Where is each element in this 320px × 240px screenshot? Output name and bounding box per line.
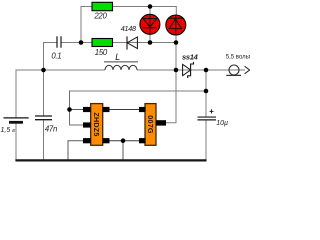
node junction rail ss14 anode bbox=[174, 68, 179, 73]
output connector underline bbox=[226, 74, 241, 76]
LED D3 triangle up bbox=[169, 19, 182, 29]
wire row2 resistor 150 to diode 4148 and LED bottom node bbox=[113, 42, 151, 44]
diode D1 4148 cathode bar bbox=[126, 36, 128, 49]
wire top row resistor 220 to LED2 corner bbox=[113, 7, 177, 16]
LED D3 lead through bbox=[175, 15, 177, 35]
wire LED1 anode stub bbox=[149, 7, 151, 15]
inductor L core line bbox=[104, 61, 138, 63]
wire battery positive lead bbox=[15, 70, 17, 117]
LED D3 body circle bbox=[166, 15, 186, 35]
LED D3 cathode bar top bbox=[169, 17, 183, 19]
inductor L winding humps bbox=[105, 65, 137, 70]
wire main top rail left (battery to coil) bbox=[16, 69, 106, 71]
IC U1 body bbox=[91, 104, 103, 146]
wire output cap lower lead bbox=[205, 120, 207, 160]
IC U2 pin left bottom bbox=[139, 138, 146, 143]
wire IC1 to IC2 bottom interconnect bbox=[110, 140, 140, 142]
svg-text:5,5 вольт: 5,5 вольт bbox=[226, 55, 250, 61]
node junction LED1 top bbox=[148, 4, 153, 9]
capacitor C3 polarity plus bbox=[210, 109, 214, 113]
output arrow head bbox=[245, 66, 250, 74]
IC U1 pin 1 left top bbox=[83, 107, 91, 112]
IC U2 body bbox=[145, 104, 156, 146]
svg-text:150: 150 bbox=[95, 48, 108, 57]
wire ground bottom rail bbox=[15, 159, 206, 161]
wire row2 left segment to cap 0.1 bbox=[43, 42, 57, 44]
output connector circle bbox=[229, 65, 239, 75]
wire feedback bus y91 bbox=[70, 90, 207, 92]
diode D1 4148 triangle bbox=[127, 37, 137, 49]
svg-text:007G: 007G bbox=[146, 115, 155, 134]
IC U1 pin 4 right bottom bbox=[103, 138, 110, 143]
node junction LED2 bottom bbox=[174, 40, 179, 45]
capacitor C3 10u plates bbox=[198, 116, 217, 118]
svg-text:L: L bbox=[115, 52, 120, 62]
svg-text:ZHDZ5: ZHDZ5 bbox=[92, 112, 101, 136]
svg-text:10µ: 10µ bbox=[216, 120, 228, 127]
battery B1 1.5V long plate bbox=[4, 117, 29, 119]
svg-text:47n: 47n bbox=[45, 125, 57, 134]
wire mid ground drop bbox=[122, 141, 124, 160]
IC U1 pin 3 left bottom bbox=[83, 138, 91, 143]
node junction LED1 bottom bbox=[148, 40, 153, 45]
wire top row left of resistor 220 bbox=[81, 6, 93, 8]
LED D2 body circle bbox=[140, 14, 160, 34]
node junction 0.1 to 150 and 220 riser bbox=[79, 40, 84, 45]
diode D4 ss14 triangle bbox=[183, 64, 191, 75]
wire LED bus down through rail to IC2 right pin bbox=[166, 43, 176, 123]
wire IC1 pin1 link bbox=[70, 109, 84, 111]
node junction rail output cap bbox=[204, 68, 209, 73]
wire main rail right (coil to output arrow) bbox=[137, 69, 245, 71]
wire vertical between 220 row and 150 row bbox=[80, 6, 82, 43]
node junction bottom interconnect ground bbox=[121, 138, 126, 143]
wire row2 cap 0.1 to resistor 150 bbox=[62, 42, 93, 44]
wire output cap upper lead bbox=[205, 70, 207, 117]
svg-text:ss14: ss14 bbox=[182, 52, 199, 61]
svg-text:4148: 4148 bbox=[121, 24, 137, 33]
wire IC1 left rail bbox=[70, 91, 84, 126]
node junction IC1 left rail bbox=[67, 107, 72, 112]
wire LED bottom bus bbox=[150, 42, 176, 44]
wire IC1 pin3 to ground bbox=[68, 141, 83, 160]
resistor R2 150 body bbox=[92, 39, 113, 47]
wire 47n lower lead bbox=[43, 120, 45, 160]
wire node A riser (0.1 cap branch vertical) bbox=[43, 43, 45, 116]
LED D2 triangle down bbox=[143, 19, 157, 27]
diode D4 ss14 schottky cathode bbox=[188, 62, 194, 78]
wire LED2 bottom stub bbox=[175, 35, 177, 43]
wire battery negative lead bbox=[15, 123, 17, 160]
IC U2 pin right middle bbox=[156, 120, 166, 125]
LED D2 cathode bar bbox=[143, 27, 156, 29]
IC U1 pin 5 right top bbox=[103, 107, 110, 112]
resistor R1 220 body bbox=[92, 2, 113, 10]
capacitor C1 0.1 plates bbox=[57, 36, 61, 48]
node junction feedback bus cap bbox=[204, 89, 209, 94]
svg-text:220: 220 bbox=[93, 11, 107, 20]
capacitor C2 47n plates bbox=[35, 115, 52, 117]
wire IC1 to IC2 top interconnect bbox=[110, 109, 140, 111]
node junction battery-cap branch bbox=[41, 68, 46, 73]
svg-text:0.1: 0.1 bbox=[51, 51, 61, 60]
battery B1 short thick plate bbox=[9, 121, 23, 124]
wire LED1 cathode stub bbox=[149, 34, 151, 42]
IC U2 pin left top bbox=[139, 107, 146, 112]
LED D2 lead through bbox=[149, 14, 151, 34]
svg-text:1,5 в: 1,5 в bbox=[1, 127, 16, 134]
IC U1 pin 2 left middle bbox=[83, 122, 91, 127]
